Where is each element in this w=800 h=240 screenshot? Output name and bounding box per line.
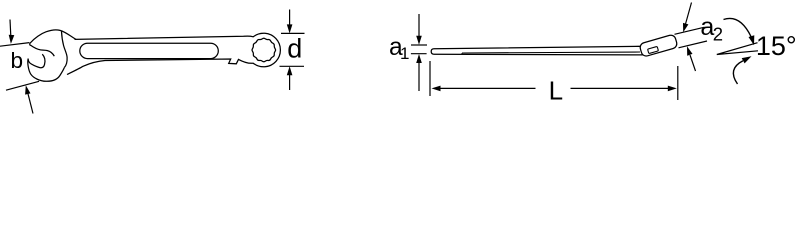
svg-text:L: L <box>549 76 563 106</box>
svg-text:2: 2 <box>713 24 723 45</box>
svg-text:1: 1 <box>400 44 409 63</box>
svg-text:b: b <box>11 48 24 73</box>
svg-text:d: d <box>287 33 302 63</box>
svg-text:15°: 15° <box>756 31 797 61</box>
